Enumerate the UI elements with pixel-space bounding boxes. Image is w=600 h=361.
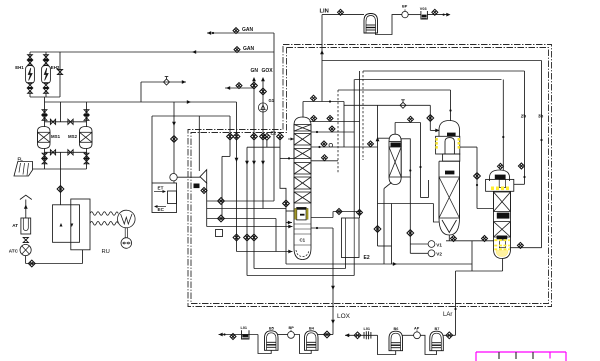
valve crossover top left (50, 119, 55, 124)
title block left tick (475, 352, 477, 361)
packing C4 lower (494, 222, 511, 237)
column C3 shell (438, 161, 440, 218)
node x477 (476, 184, 478, 186)
arrow x236.5 down (235, 158, 239, 162)
instrument V03 (421, 11, 428, 19)
wire pump AP to tank B7 (420, 335, 436, 354)
expansion turbine RU (118, 210, 136, 228)
tank LIN dewar (364, 14, 378, 34)
wire x524.5 into flange (514, 183, 525, 185)
valve GN supply (236, 83, 242, 89)
wire x472 drop (471, 241, 473, 271)
valve x410.5 (407, 230, 414, 237)
column C4 bottom head yellow fill (496, 251, 508, 257)
column C3 bottom head (439, 218, 460, 235)
packing C1 section 4 (294, 163, 311, 175)
inner box of ET (168, 191, 177, 204)
wire x152 drop to ET box (151, 116, 153, 183)
wire x230 drop (229, 116, 231, 156)
wire header y251.5 (237, 251, 293, 253)
wire to V2 (410, 252, 428, 254)
wire into tank B6 (378, 335, 396, 354)
valve x230 (227, 133, 234, 140)
wire C3 to C4 transfer x477 (476, 147, 478, 208)
svg-text:FL: FL (18, 157, 24, 162)
wire E03 outlet (384, 183, 392, 189)
wire C1 side y160.8 (311, 160, 338, 162)
yellow stripe C4 c (494, 248, 510, 250)
packing C1 section 3 (294, 149, 311, 159)
column C4 shell (493, 191, 495, 249)
svg-text:BP: BP (402, 5, 408, 9)
wire coil to RU upper (90, 212, 118, 216)
wire GAN product line 2 (30, 51, 274, 53)
svg-text:ET: ET (158, 186, 164, 191)
valve x254 lower (251, 234, 258, 241)
tray line C1 a (294, 223, 311, 225)
vessel AT (21, 218, 31, 234)
valve GOX upper (260, 88, 267, 95)
column C4 bottom head (494, 249, 511, 259)
tag C3B (445, 171, 454, 175)
packing C4 upper (494, 192, 511, 212)
valve LIN out (432, 9, 438, 15)
packing C3 (439, 177, 460, 218)
wire x247 line (246, 147, 248, 275)
svg-text:E1: E1 (271, 131, 277, 136)
wire x428.5 riser (428, 180, 430, 198)
svg-text:V03: V03 (420, 7, 427, 11)
valve crossover bottom left (50, 150, 55, 155)
arrow LOX fill left (219, 333, 223, 337)
svg-text:B5: B5 (269, 327, 274, 331)
wire C1 side y228 (311, 227, 333, 229)
wire x420.5 drop (420, 123, 422, 198)
wire C1 side y132 (311, 131, 354, 133)
arrow AT vent (24, 205, 28, 209)
wire into tank B5 (258, 335, 271, 354)
wire E2 bottom stub b (353, 258, 355, 276)
wire y116 header (152, 115, 230, 117)
node LAr fill (347, 334, 349, 336)
wire MS1 bottom branch (44, 149, 46, 170)
vessel E03 dome (389, 134, 401, 147)
wire x222 drop (221, 156, 223, 218)
svg-text:AT: AT (12, 223, 18, 228)
wire x207 expander outlet (206, 183, 208, 226)
title block right tick (565, 352, 567, 361)
wire main air line y102 (45, 101, 237, 103)
node LOX fill (223, 333, 225, 335)
valve near C1 top (311, 95, 317, 101)
tag C4 bottom (497, 236, 508, 240)
wire LOX line x333 (332, 228, 334, 335)
wire x363 dashed (362, 71, 364, 160)
tray line C1 d (294, 244, 311, 246)
wire EH2 bottom (45, 91, 47, 97)
arrow GN flow down (252, 161, 256, 165)
svg-text:EH1: EH1 (15, 65, 24, 70)
svg-text:RU: RU (102, 249, 110, 255)
wire GN supply y88 (225, 87, 254, 89)
adsorber MS1 (38, 127, 51, 149)
vent chevron (20, 195, 32, 199)
valve GN coldbox (251, 133, 258, 140)
wire C1 left side y158.4 (280, 157, 294, 159)
wire C1 side y217.5 (311, 217, 333, 219)
wire y147.2 header (247, 146, 280, 148)
node small square (216, 230, 223, 237)
arrow x247 down (245, 161, 249, 165)
valve GN upper (251, 82, 258, 89)
booster compressor of ET (170, 174, 177, 181)
valve y160.8 (322, 155, 328, 161)
wire step x420.5 to x428.5 (421, 197, 429, 199)
wire header y226.5 (207, 226, 293, 228)
node x503.3 (502, 136, 504, 138)
tag EC small (194, 184, 200, 189)
arrow GN up (252, 77, 256, 81)
valve above EH2 (44, 55, 49, 60)
wire C3 top feed x450.5 (450, 90, 452, 121)
wire header y71 (363, 70, 525, 72)
valve y240.8 a (451, 236, 457, 242)
valve on x60.5 (57, 186, 64, 193)
wire LAr fill line (345, 334, 378, 336)
wire ATC down (25, 256, 27, 264)
valve above EH1 (28, 55, 33, 60)
valve LOX fill (230, 334, 236, 340)
wire B4 to LOX line (318, 334, 333, 336)
flange box of C4 (486, 179, 514, 191)
filter FL (14, 162, 33, 177)
wire x354.2 line (353, 80, 355, 219)
node y147 (318, 146, 320, 148)
compressor G1 (258, 103, 267, 112)
wire B7 to LAr line (443, 334, 455, 336)
wire E2 bottom stub a (345, 258, 347, 269)
valve C1 y121.5 b (327, 115, 333, 121)
valve x280 coldbox (277, 133, 284, 140)
packing C1 section 2 (294, 134, 311, 146)
instrument L01 group1 (242, 330, 250, 339)
valve below EH1 (28, 83, 33, 88)
wire booster outlet down (173, 181, 175, 183)
wire RU shaft (124, 228, 126, 238)
arrow LAr fill left (345, 333, 349, 337)
title block top line (476, 351, 566, 353)
svg-text:G1: G1 (269, 98, 275, 103)
wire MS center feed x60.5 upper (60, 102, 62, 122)
wire C4 right feed x524.5 (524, 71, 526, 184)
wire GAN product line 1 (207, 32, 274, 34)
svg-text:AP: AP (414, 326, 420, 330)
arrow up x377.5 (376, 137, 380, 141)
wire header y201 (207, 200, 274, 202)
wire riser x82.5 to E1 (82, 250, 84, 264)
valve x247 (244, 234, 251, 241)
wire C4 bottom right y247.7 (510, 247, 542, 249)
svg-text:L01: L01 (364, 327, 371, 331)
wire y211.5 to E2 (333, 211, 360, 213)
valve x286 (283, 200, 290, 207)
wire header y90 (338, 89, 451, 91)
valve y240.8 b (482, 236, 488, 242)
wire heater branch x46 (45, 52, 47, 66)
valve ATC discharge (28, 260, 35, 267)
arrow booster feed (172, 122, 176, 126)
wire C3 bottom outlet (448, 235, 450, 241)
arrow LIN out (446, 13, 450, 17)
node y132 (316, 131, 318, 133)
wire header y79.5 (355, 79, 502, 81)
svg-text:V1: V1 (436, 242, 442, 247)
arrow GAN line 1 left (207, 31, 211, 35)
valve y122.5 (408, 116, 414, 122)
tank B6 (389, 331, 403, 351)
valve bypass x60 (57, 69, 62, 74)
wire C1 top vapour y101.5 (303, 101, 344, 103)
tray line C1 c (294, 233, 311, 235)
wire LIN riser x322 (321, 15, 323, 102)
svg-text:LOX: LOX (337, 313, 351, 320)
svg-text:MS2: MS2 (68, 134, 78, 139)
wire coil to RU lower (90, 222, 118, 226)
wire K1 left y211 (286, 210, 295, 212)
packing C1 section 1 (294, 125, 311, 132)
wire pump to tank B4 (294, 335, 311, 354)
wire to V1 (410, 243, 428, 245)
svg-text:V2: V2 (436, 252, 442, 257)
wire MS2 bottom branch (86, 149, 88, 170)
wire C3 condenser side (460, 146, 477, 148)
wire C4 top feed x503.3 (502, 80, 504, 171)
wire E03 top y122.5 (395, 122, 420, 124)
yellow mark C3 left (435, 138, 437, 149)
valve on GAN line 2 (234, 47, 240, 53)
heater EH1 (26, 66, 35, 84)
valve crossover top right (68, 119, 73, 124)
arrow into C1 left y139 (288, 138, 294, 140)
neck of C3 (443, 154, 460, 161)
pump AP (414, 332, 421, 339)
valve C1 y121.5 a (311, 115, 317, 121)
valve B7 inlet (446, 332, 453, 339)
arrow LOX a (331, 286, 335, 290)
wire header y203.5 (378, 203, 434, 205)
arrow GN supply (226, 86, 230, 90)
valve y218.5 (218, 215, 225, 222)
wire x174 booster feed (173, 102, 175, 174)
wire x391.5 line (391, 204, 393, 265)
valve below MS2 (84, 153, 89, 158)
packing E03 (389, 147, 401, 177)
title block mid tick magenta (549, 352, 551, 359)
title block tick 3 (532, 352, 534, 359)
valve x236.5 lower (233, 234, 240, 241)
valve below AT (23, 237, 28, 242)
svg-text:B6: B6 (394, 327, 399, 331)
svg-text:2b: 2b (521, 114, 527, 119)
svg-text:LIN: LIN (320, 9, 329, 15)
node x450.5 (449, 109, 451, 111)
valve LIN (338, 9, 344, 15)
svg-text:GOX: GOX (262, 68, 274, 74)
wire jog y156.4 (222, 155, 230, 157)
wire corner y246 (378, 245, 392, 247)
node LAr boundary (454, 308, 456, 310)
wire MS1 top branch (44, 102, 46, 127)
wire x141 drop (140, 82, 142, 102)
wire x430 drop to C3 (429, 105, 431, 130)
wire x338 dashed (337, 90, 339, 174)
wire x410.5 drop (409, 177, 411, 253)
stub x266.9 (266, 140, 268, 147)
tag C3A (447, 133, 456, 137)
svg-text:LAr: LAr (443, 312, 452, 318)
wire y203.5 into C3 bottom (433, 204, 439, 223)
yellow mark C3 right (458, 138, 460, 149)
svg-text:L01: L01 (241, 326, 248, 330)
cold box boundary inner dash-dot (191, 48, 549, 304)
valve C1 y147 a (321, 141, 327, 147)
condenser K1 of C1 (297, 208, 306, 220)
valve x266.9 (264, 133, 271, 140)
arrow GOX flow down (261, 161, 265, 165)
wire C1 dome stub (302, 102, 304, 118)
wire x359.5 line (359, 71, 361, 218)
tag C4 top (495, 175, 506, 180)
arrow y226.5 (288, 225, 292, 229)
valve GOX coldbox (260, 133, 267, 140)
inner box C4 top (499, 179, 505, 187)
wire AT vent riser (25, 200, 27, 219)
arrow GAN line 2 (192, 50, 196, 54)
valve on vent line (164, 77, 170, 86)
svg-text:GN: GN (251, 68, 259, 74)
wire MS2 top branch (86, 102, 88, 127)
wire MS crossover bottom y152.3 (45, 151, 87, 153)
wire GOX column line x263 (262, 79, 264, 209)
yellow band C4 flange (491, 187, 511, 191)
wire ATC discharge y263.5 (26, 263, 83, 265)
arrow GOX up (261, 77, 265, 81)
svg-text:B7: B7 (435, 327, 440, 331)
column C1 shell (294, 117, 311, 248)
wire LOX fill line (219, 334, 259, 336)
wire x541.5 line (541, 61, 543, 248)
svg-text:GAN: GAN (243, 46, 255, 52)
yellow stripe C4 a (494, 239, 510, 241)
wire after V03 (427, 14, 449, 16)
adsorber MS2 (80, 127, 93, 149)
wire MS bottom header y169 (33, 168, 87, 170)
node x410.3 (409, 169, 411, 171)
yellow mark K1 right (306, 209, 308, 220)
valve y147 right (368, 141, 374, 147)
arrow ET (154, 191, 165, 193)
side jacket of E03 (401, 139, 410, 177)
wire LIN pump discharge (408, 14, 421, 16)
column C4 dome (490, 170, 510, 181)
valve y211.5 (336, 209, 342, 215)
wire x384 drop (383, 189, 385, 265)
wire header y218.5 (207, 218, 276, 220)
wire E03 feed y138.2 (378, 137, 390, 139)
column C3 dome (439, 121, 460, 137)
valve below MS1 (42, 153, 47, 158)
wire y240.8 to C4 (446, 240, 494, 242)
wire LIN tank outlet (376, 15, 402, 35)
arrow EC (155, 206, 166, 208)
pump LIN (402, 11, 408, 17)
vessel E03 bottom (389, 177, 401, 185)
wire E03 dome stub (394, 123, 396, 135)
packing C1 section 5 (294, 177, 311, 189)
strainer L01 group2 (364, 331, 371, 339)
wire header y208.5 (207, 208, 286, 210)
analyser V2 (428, 250, 435, 257)
svg-text:MS1: MS1 (51, 134, 61, 139)
wire B5 to pump (278, 334, 288, 336)
valve x430 (427, 115, 434, 122)
node LIN out (443, 14, 445, 16)
node x420.5 (419, 166, 421, 168)
valve C4 top (497, 163, 503, 169)
inner box C4 bottom (499, 240, 505, 248)
wire heater branch x30 (29, 52, 31, 66)
svg-text:EC: EC (158, 207, 165, 212)
valve y105.3 mid (400, 100, 406, 109)
node x524.5 (523, 176, 525, 178)
wire into C3 dome (430, 129, 439, 131)
wire header y60.5 (322, 60, 542, 62)
pump BP (288, 332, 295, 339)
title block tick 1 (498, 352, 500, 359)
valve above E2 (357, 210, 363, 216)
heat exchanger E1 block A (53, 205, 80, 243)
node on GAN line 1 (212, 32, 214, 34)
title block tick 2 (515, 352, 517, 359)
analyser V1 (428, 241, 435, 248)
arrow vent line (182, 80, 186, 84)
valve below EC tag (201, 188, 207, 194)
arrow into C3 (435, 129, 439, 133)
wire y271 LAr header (456, 270, 503, 272)
node y101.5 (329, 100, 331, 102)
cold box boundary outer dash-dot (188, 45, 552, 307)
heat exchanger E1 block B (71, 199, 90, 250)
arrow air line y102 (187, 100, 191, 104)
svg-text:3b: 3b (538, 114, 544, 119)
packing C1 section 6 (294, 192, 311, 203)
wire x477 into C4 (477, 208, 494, 210)
valve on GAN line 1 (233, 28, 239, 34)
wire C4 bottom outlet (502, 259, 504, 272)
ET EC box (152, 183, 177, 213)
valve y201 (218, 198, 225, 205)
wire MS center line x60.5 to E1 (60, 152, 62, 205)
arrow inside E1 up (60, 223, 63, 227)
valve B4 outlet (324, 331, 331, 338)
valve below EH2 (44, 83, 49, 88)
wire y275.5 header (247, 275, 354, 277)
wire x276 drop (275, 219, 277, 252)
expander ET cone (200, 170, 207, 183)
valve y247.7 (517, 242, 523, 248)
tank B4 (305, 331, 319, 351)
generator of RU (121, 238, 132, 249)
